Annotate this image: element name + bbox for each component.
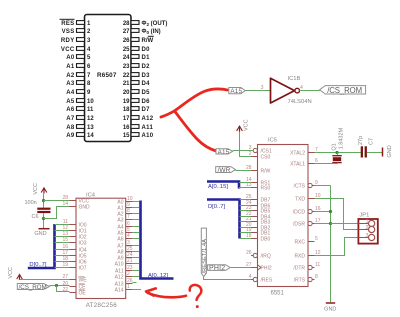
IC4 pin 2 A12 bbox=[115, 271, 133, 280]
pin 16 A11 bbox=[123, 125, 154, 131]
ground (crystal) bbox=[383, 145, 393, 157]
pin 26 RW bbox=[123, 36, 154, 44]
junction VCC/pin28 bbox=[42, 199, 45, 202]
svg-text:19: 19 bbox=[123, 99, 130, 105]
IC4 pin 15 IO3 bbox=[62, 237, 86, 246]
svg-text:8: 8 bbox=[315, 274, 318, 280]
IC4 pin 11 IO0 bbox=[63, 219, 87, 228]
IC5 pin 16 /DCD bbox=[293, 206, 321, 215]
junction /DCD bbox=[329, 210, 332, 213]
wire D bus to IO pin bbox=[55, 255, 70, 257]
svg-text:DB0: DB0 bbox=[261, 237, 271, 243]
svg-text:PHI2: PHI2 bbox=[209, 265, 225, 272]
red hand-drawn arrow pointing at A13/A14 bbox=[146, 288, 186, 297]
svg-text:6551: 6551 bbox=[271, 290, 285, 296]
wire A bus to pin bbox=[132, 270, 139, 272]
wire A bus to pin bbox=[132, 263, 139, 265]
svg-text:/CS_ROM: /CS_ROM bbox=[327, 86, 362, 95]
pin 14 A9 bbox=[66, 133, 94, 139]
wire /CS_ROM to /CE pin20 bbox=[50, 285, 70, 287]
svg-text:11: 11 bbox=[315, 262, 320, 268]
pin 23 D2 bbox=[123, 64, 150, 70]
IC4 pin 27 WE bbox=[62, 274, 87, 283]
wire D bus to DB pin bbox=[240, 232, 252, 234]
svg-text:RS0: RS0 bbox=[261, 186, 271, 192]
wire GND branch to IC4 pin14 bbox=[44, 207, 70, 219]
IC5 pin 23 DB5 bbox=[246, 205, 271, 214]
junction /CS_ROM bbox=[55, 284, 58, 287]
net label /RESET/1.4A (vertical) bbox=[201, 228, 208, 277]
IC4 pin 26 A13 bbox=[115, 278, 133, 287]
svg-text:D[0..7]: D[0..7] bbox=[208, 204, 225, 210]
svg-text:A10: A10 bbox=[115, 262, 124, 268]
IC5 pin 25 DB7 bbox=[246, 194, 271, 203]
IC4 pin 9 A1 bbox=[117, 202, 132, 211]
wire A bus to pin bbox=[132, 201, 139, 203]
wire A bus to pin bbox=[132, 245, 139, 247]
IC5 pin 22 DB4 bbox=[246, 211, 271, 220]
svg-text:18: 18 bbox=[123, 107, 130, 113]
svg-text:A15: A15 bbox=[230, 88, 242, 95]
IC4 pin 18 IO6 bbox=[62, 256, 86, 265]
IC5 pin 10 TXD bbox=[295, 193, 321, 202]
IC5 pin 9 /CTS bbox=[294, 180, 318, 189]
wire RXD to JP1 pin3 bbox=[315, 238, 359, 256]
pin 2 VSS bbox=[62, 29, 91, 35]
svg-text:A12: A12 bbox=[115, 275, 124, 281]
wire D bus to IO pin bbox=[55, 230, 70, 232]
pin 27 PHI0IN bbox=[123, 29, 161, 35]
svg-text:A15: A15 bbox=[218, 149, 230, 156]
svg-text:A4: A4 bbox=[66, 90, 75, 96]
pin 12 A7 bbox=[66, 116, 94, 122]
svg-text:XTAL1: XTAL1 bbox=[290, 162, 305, 168]
pin 5 A0 bbox=[66, 55, 91, 61]
svg-text:RES: RES bbox=[61, 21, 74, 27]
IC4 pin 16 IO4 bbox=[62, 244, 86, 253]
wire VCC to CS0 bbox=[240, 132, 252, 157]
junction /DSR bbox=[329, 222, 332, 225]
IC5 pin 17 /DSR bbox=[293, 218, 321, 227]
IC4 pin 25 A8 bbox=[117, 246, 132, 255]
wire A bus to pin bbox=[132, 226, 139, 228]
IC5 pin 28 R/W bbox=[246, 165, 271, 174]
svg-text:10: 10 bbox=[87, 99, 94, 105]
pin 24 D1 bbox=[123, 55, 150, 61]
svg-text:A14: A14 bbox=[115, 288, 124, 294]
svg-text:21: 21 bbox=[127, 258, 133, 264]
pin 19 D6 bbox=[123, 99, 150, 105]
IC5 pin 27 PHI2 bbox=[246, 262, 272, 271]
wire IC1B output to /CS_ROM bbox=[300, 90, 320, 92]
svg-text:D5: D5 bbox=[142, 90, 151, 96]
svg-text:AT28C256: AT28C256 bbox=[86, 302, 118, 309]
op-amp U-IC1B inverter 74LS04N bbox=[271, 76, 312, 105]
bus D[0..7] (IC5 side) bbox=[207, 200, 240, 239]
svg-text:A[0..15]: A[0..15] bbox=[208, 184, 228, 190]
svg-text:Φ2 (OUT): Φ2 (OUT) bbox=[142, 21, 168, 27]
svg-text:A3: A3 bbox=[117, 218, 123, 224]
svg-text:VCC: VCC bbox=[8, 267, 14, 279]
svg-text:XTAL2: XTAL2 bbox=[290, 151, 305, 157]
connector JP1 bbox=[358, 213, 377, 244]
pin 3 RDY bbox=[61, 38, 91, 44]
svg-text:13: 13 bbox=[87, 125, 94, 131]
junction bbox=[335, 151, 338, 154]
wire bus to RS1 bbox=[239, 182, 251, 184]
wire D bus to IO pin bbox=[55, 236, 70, 238]
stub A14 bbox=[132, 289, 141, 291]
wire PHI2 to pin 27 bbox=[230, 267, 251, 269]
svg-text:20: 20 bbox=[123, 90, 130, 96]
svg-text:D6: D6 bbox=[142, 99, 151, 105]
wire /WR to R/W pin 28 bbox=[236, 170, 252, 172]
IC5 pin 13 RS0 bbox=[246, 182, 271, 191]
bus D[0..7] (IC4 side) bbox=[28, 224, 55, 268]
wire D bus to DB pin bbox=[240, 221, 252, 223]
svg-text:11: 11 bbox=[87, 107, 94, 113]
capacitor C6 100n bbox=[25, 200, 51, 220]
wire A bus to pin bbox=[132, 219, 139, 221]
wire A bus to pin bbox=[132, 276, 139, 278]
svg-text:26: 26 bbox=[123, 38, 130, 44]
wire D bus to IO pin bbox=[55, 267, 70, 269]
IC4 pin 22 OE bbox=[62, 287, 86, 296]
IC4 pin 5 A5 bbox=[117, 227, 132, 236]
ic IC4 AT28C256 EEPROM body bbox=[76, 193, 126, 310]
svg-text:TXD: TXD bbox=[295, 197, 305, 203]
svg-text:A1: A1 bbox=[66, 64, 75, 70]
wire D bus to DB pin bbox=[240, 227, 252, 229]
wire D bus to DB pin bbox=[240, 216, 252, 218]
IC4 pin 14 GND bbox=[62, 201, 90, 210]
wire A bus to pin bbox=[132, 232, 139, 234]
pin 15 A10 bbox=[123, 133, 154, 139]
svg-text:/RES: /RES bbox=[261, 278, 273, 284]
red hand-drawn Y arrow from A12 to both A15 labels bbox=[161, 89, 228, 152]
wire bus to RS0 bbox=[239, 187, 251, 189]
IC5 pin 5 RXC bbox=[294, 236, 318, 245]
IC4 pin 6 A4 bbox=[117, 221, 132, 230]
wire TXD to JP1 pin2 bbox=[315, 199, 359, 230]
wire A bus to pin bbox=[132, 213, 139, 215]
IC4 pin 13 IO2 bbox=[62, 231, 86, 240]
IC5 pin 7 XTAL2 bbox=[290, 147, 318, 156]
svg-text:C7: C7 bbox=[369, 138, 375, 145]
IC5 pin 26 /IRQ bbox=[246, 250, 271, 259]
IC4 pin 8 A2 bbox=[117, 208, 132, 217]
svg-text:IC5: IC5 bbox=[268, 138, 277, 144]
pin 11 A6 bbox=[66, 107, 94, 113]
vcc symbol (IC4) bbox=[33, 183, 47, 195]
svg-text:A8: A8 bbox=[66, 125, 75, 131]
svg-text:3: 3 bbox=[261, 85, 264, 91]
svg-text:100n: 100n bbox=[25, 200, 37, 206]
wire A bus to pin bbox=[132, 257, 139, 259]
IC5 pin 24 DB6 bbox=[246, 200, 271, 209]
svg-text:27p: 27p bbox=[358, 136, 364, 145]
svg-text:1.8432M: 1.8432M bbox=[339, 127, 345, 149]
wire VCC rail down bbox=[43, 193, 45, 207]
svg-text:VCC: VCC bbox=[33, 183, 39, 195]
wire D bus to DB pin bbox=[240, 238, 252, 240]
wire D bus to DB pin bbox=[240, 199, 252, 201]
IC4 pin 23 A11 bbox=[115, 265, 133, 274]
svg-text:4: 4 bbox=[127, 233, 130, 239]
svg-text:16: 16 bbox=[123, 125, 130, 131]
pin 20 D5 bbox=[123, 90, 150, 96]
net label /CS_ROM (top) bbox=[320, 86, 366, 95]
svg-text:A3: A3 bbox=[66, 81, 75, 87]
svg-text:28: 28 bbox=[123, 21, 130, 27]
wire D bus to IO pin bbox=[55, 224, 70, 226]
net label PHI2 bbox=[208, 265, 231, 272]
svg-text:IC1B: IC1B bbox=[288, 76, 301, 82]
svg-text:RXD: RXD bbox=[294, 254, 305, 260]
capacitor C7 27p bbox=[358, 136, 375, 158]
pin 21 D4 bbox=[123, 81, 150, 87]
svg-text:/WR: /WR bbox=[218, 167, 231, 174]
wire D bus to DB pin bbox=[240, 205, 252, 207]
svg-text:D1: D1 bbox=[142, 55, 151, 61]
svg-text:5: 5 bbox=[315, 236, 318, 242]
svg-text:D3: D3 bbox=[142, 73, 151, 79]
IC4 pin 4 A6 bbox=[117, 233, 132, 242]
net label /WR bbox=[216, 167, 236, 175]
svg-text:17: 17 bbox=[123, 116, 130, 122]
crystal Q1 1.8432M bbox=[331, 127, 344, 163]
red hand-drawn question mark bbox=[190, 285, 202, 308]
svg-text:Φ0 (IN): Φ0 (IN) bbox=[142, 29, 161, 35]
svg-text:IO3: IO3 bbox=[79, 241, 87, 247]
wire VCC to /WE pin27 bbox=[20, 279, 70, 281]
IC5 pin 2 CS0 bbox=[249, 151, 271, 160]
IC4 pin 24 A9 bbox=[117, 252, 132, 261]
svg-text:74LS04N: 74LS04N bbox=[288, 99, 312, 105]
svg-text:GND: GND bbox=[387, 145, 393, 157]
IC4 pin 28 VCC bbox=[62, 195, 89, 204]
svg-text:A11: A11 bbox=[142, 125, 154, 131]
svg-text:2: 2 bbox=[366, 225, 369, 231]
wire A bus to pin bbox=[132, 207, 139, 209]
IC4 pin 3 A7 bbox=[117, 240, 132, 249]
svg-text:A12: A12 bbox=[142, 116, 154, 122]
pin 1 RES bbox=[60, 19, 92, 27]
svg-text:24: 24 bbox=[123, 55, 130, 61]
net label /CS_ROM (IC4) bbox=[17, 284, 49, 291]
wire D bus to IO pin bbox=[55, 242, 70, 244]
IC5 pin 8 /RTS bbox=[294, 274, 318, 283]
IC4 pin 7 A3 bbox=[117, 214, 132, 223]
wire to IC4 VCC pin28 bbox=[44, 200, 70, 202]
pin 4 VCC bbox=[61, 47, 91, 53]
svg-text:22: 22 bbox=[123, 73, 130, 79]
svg-text:VSS: VSS bbox=[62, 29, 75, 35]
svg-text:RDY: RDY bbox=[61, 38, 75, 44]
svg-text:14: 14 bbox=[87, 133, 94, 139]
svg-text:R6507: R6507 bbox=[97, 72, 117, 79]
svg-text:/DCD: /DCD bbox=[293, 210, 306, 216]
svg-text:25: 25 bbox=[123, 47, 130, 53]
net label A15 (to IC5 /CS1) bbox=[216, 149, 233, 156]
IC4 pin 17 IO5 bbox=[62, 250, 86, 259]
IC4 pin 20 CE bbox=[62, 281, 86, 290]
IC5 pin 21 DB3 bbox=[246, 216, 271, 225]
svg-text:22: 22 bbox=[62, 287, 68, 293]
svg-text:/DTR: /DTR bbox=[293, 266, 305, 272]
pin 28 PHI2OUT bbox=[123, 21, 168, 27]
net label A15 (to inverter) bbox=[229, 88, 246, 96]
svg-text:JP1: JP1 bbox=[359, 213, 369, 219]
svg-text:R/W: R/W bbox=[261, 169, 271, 175]
svg-text:GND: GND bbox=[79, 205, 91, 211]
IC5 pin 20 DB2 bbox=[246, 222, 271, 231]
svg-text:C6: C6 bbox=[32, 214, 39, 220]
svg-text:D[0..7]: D[0..7] bbox=[29, 262, 46, 268]
ground (serial) bbox=[324, 303, 336, 313]
pin 13 A8 bbox=[66, 125, 94, 131]
pin 6 A1 bbox=[66, 64, 91, 70]
pin 18 D7 bbox=[123, 107, 150, 113]
wire A15 to IC1B input bbox=[245, 90, 270, 92]
IC5 pin 14 RS1 bbox=[246, 177, 271, 186]
IC4 pin 10 A0 bbox=[117, 196, 132, 205]
ic U1 R6507 DIP-28 pinout (scanned) bbox=[85, 15, 132, 142]
IC5 pin 11 /DTR bbox=[293, 262, 320, 271]
svg-text:D7: D7 bbox=[142, 107, 151, 113]
svg-text:D4: D4 bbox=[142, 81, 151, 87]
svg-text:R/W: R/W bbox=[142, 38, 154, 44]
wire C7 to GND bbox=[367, 152, 383, 154]
svg-text:23: 23 bbox=[123, 64, 130, 70]
IC5 pin 12 RXD bbox=[294, 250, 320, 259]
svg-text:A[0..12]: A[0..12] bbox=[148, 273, 168, 279]
IC4 pin 21 A10 bbox=[115, 258, 133, 267]
svg-text:A6: A6 bbox=[66, 107, 75, 113]
IC5 pin 18 DB0 bbox=[246, 233, 271, 242]
svg-text:OE: OE bbox=[79, 291, 87, 297]
svg-text:21: 21 bbox=[123, 81, 130, 87]
svg-text:/RESET/1.4A: /RESET/1.4A bbox=[202, 239, 208, 274]
svg-text:A7: A7 bbox=[66, 116, 75, 122]
IC4 pin 12 IO1 bbox=[62, 225, 86, 234]
svg-text:GND: GND bbox=[324, 307, 336, 313]
wire D bus to DB pin bbox=[240, 210, 252, 212]
svg-text:A2: A2 bbox=[66, 73, 75, 79]
svg-text:WE: WE bbox=[79, 278, 88, 284]
svg-text:PHI2: PHI2 bbox=[261, 266, 272, 272]
svg-text:12: 12 bbox=[87, 116, 94, 122]
svg-text:15: 15 bbox=[123, 133, 130, 139]
IC5 pin 4 /RES bbox=[249, 274, 273, 283]
svg-text:/CS_ROM: /CS_ROM bbox=[19, 284, 47, 291]
svg-text:/IRQ: /IRQ bbox=[261, 254, 271, 260]
wire /CS_ROM branch to /OE pin22 bbox=[57, 286, 70, 292]
pin 25 D0 bbox=[123, 47, 150, 53]
svg-text:27: 27 bbox=[123, 29, 130, 35]
svg-text:26: 26 bbox=[246, 250, 252, 256]
svg-text:D0: D0 bbox=[142, 47, 151, 53]
wire A bus to pin bbox=[132, 238, 139, 240]
svg-text:Q1: Q1 bbox=[331, 143, 337, 150]
wire /CTS /DCD /DSR to GND bbox=[315, 186, 331, 303]
wire /RESET to /RES pin 4 bbox=[204, 277, 252, 280]
wire A bus to pin bbox=[132, 251, 139, 253]
svg-text:A5: A5 bbox=[66, 99, 75, 105]
svg-text:A0: A0 bbox=[66, 55, 75, 61]
svg-text:IO7: IO7 bbox=[79, 266, 87, 272]
svg-text:7: 7 bbox=[127, 214, 130, 220]
pin 7 A2 bbox=[66, 73, 91, 79]
svg-text:/CTS: /CTS bbox=[294, 184, 306, 190]
vcc symbol (IC4 /WE) bbox=[8, 267, 22, 280]
svg-text:A10: A10 bbox=[142, 133, 154, 139]
vcc symbol (IC5 CS0) bbox=[237, 119, 250, 131]
IC5 pin 19 DB1 bbox=[246, 227, 271, 236]
ic IC5 6551 ACIA body bbox=[258, 138, 309, 297]
svg-text:A6: A6 bbox=[117, 237, 123, 243]
pin 9 A4 bbox=[66, 90, 91, 96]
svg-text:GND: GND bbox=[34, 231, 46, 237]
IC5 pin 6 XTAL1 bbox=[290, 158, 318, 167]
pin 8 A3 bbox=[66, 81, 91, 87]
svg-text:/RTS: /RTS bbox=[294, 278, 306, 284]
IC4 pin 1 A14 bbox=[115, 284, 133, 293]
wire XTAL2 net bbox=[315, 152, 362, 154]
bus A[0..12] bbox=[141, 201, 174, 279]
IC4 pin 19 IO7 bbox=[62, 262, 86, 271]
svg-text:1: 1 bbox=[127, 284, 130, 290]
svg-text:2: 2 bbox=[127, 271, 130, 277]
svg-text:RXC: RXC bbox=[294, 240, 305, 246]
junction GND branch bbox=[42, 217, 45, 220]
bus A[0..15] bbox=[207, 182, 239, 191]
IC5 pin 3 /CS1 bbox=[249, 145, 272, 154]
pin 10 A5 bbox=[66, 99, 94, 105]
pin 22 D3 bbox=[123, 73, 150, 79]
wire C6 bottom to GND bbox=[43, 213, 45, 228]
wire D bus to IO pin bbox=[55, 261, 70, 263]
svg-text:VCC: VCC bbox=[61, 47, 75, 53]
svg-text:3: 3 bbox=[366, 233, 369, 239]
svg-text:4: 4 bbox=[300, 85, 303, 91]
wire /DSR to JP1 pin1 bbox=[331, 223, 359, 225]
svg-text:/DSR: /DSR bbox=[293, 222, 305, 228]
svg-text:D2: D2 bbox=[142, 64, 151, 70]
svg-text:A9: A9 bbox=[66, 133, 75, 139]
svg-text:VCC: VCC bbox=[243, 119, 249, 131]
stub A13 bbox=[132, 282, 136, 284]
wire A15 to /CS1 bbox=[233, 150, 254, 152]
wire D bus to IO pin bbox=[55, 249, 70, 251]
wire XTAL1 to crystal bbox=[315, 163, 339, 165]
svg-text:CS0: CS0 bbox=[261, 155, 271, 161]
pin 17 A12 bbox=[123, 116, 154, 122]
ground (C6) bbox=[34, 229, 49, 237]
